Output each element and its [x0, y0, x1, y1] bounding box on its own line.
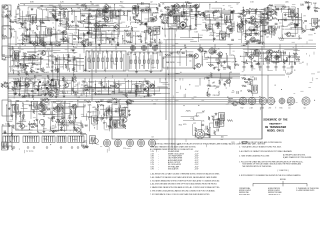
svg-text:100: 100	[221, 137, 224, 139]
svg-text:470: 470	[2, 38, 5, 40]
svg-text:TUBE AND TRANSISTOR VOLTAGE CH: TUBE AND TRANSISTOR VOLTAGE CHART (SEE N…	[150, 146, 196, 149]
svg-text:C9: C9	[36, 73, 38, 75]
svg-text:Q1: Q1	[166, 12, 168, 14]
svg-text:BAL MOD: BAL MOD	[166, 61, 175, 64]
svg-text:L3: L3	[289, 108, 291, 110]
svg-text:C8: C8	[248, 22, 250, 24]
svg-text:Q1: Q1	[48, 102, 50, 104]
svg-text:L2: L2	[250, 35, 252, 37]
svg-text:R15: R15	[33, 58, 36, 60]
svg-text:( 1 GW-21 E ): ( 1 GW-21 E )	[277, 170, 288, 172]
svg-text:Q4: Q4	[215, 60, 217, 62]
svg-text:Q2: Q2	[42, 84, 44, 86]
svg-text:Q1: Q1	[120, 92, 122, 94]
svg-text:C9: C9	[118, 110, 120, 112]
svg-text:.02: .02	[45, 17, 48, 19]
svg-text:R7: R7	[304, 16, 306, 18]
svg-text:C9: C9	[231, 61, 233, 63]
svg-text:R1: R1	[72, 104, 74, 106]
svg-text:R7: R7	[179, 8, 181, 10]
svg-text:C2: C2	[34, 107, 36, 109]
svg-text:Q4: Q4	[244, 36, 246, 38]
svg-text:C9: C9	[268, 32, 270, 34]
svg-text:C8: C8	[145, 81, 147, 83]
svg-text:L2: L2	[30, 102, 32, 104]
svg-text:.02: .02	[251, 24, 254, 26]
svg-text:Q1: Q1	[103, 24, 105, 26]
svg-text:L3: L3	[16, 66, 18, 68]
svg-text:L3: L3	[266, 55, 268, 57]
svg-text:R21: R21	[89, 37, 92, 39]
svg-text:.02: .02	[73, 52, 76, 54]
svg-text:220: 220	[29, 133, 32, 135]
svg-text:R15: R15	[29, 58, 32, 60]
svg-text:Q1: Q1	[18, 52, 20, 54]
svg-text:C2: C2	[81, 84, 83, 86]
svg-text:C9: C9	[16, 129, 18, 131]
svg-text:.047: .047	[13, 88, 17, 90]
svg-text:L3: L3	[269, 60, 271, 62]
svg-text:470: 470	[50, 95, 53, 97]
svg-text:270: 270	[39, 58, 42, 60]
svg-text:Q1: Q1	[113, 42, 115, 44]
svg-text:C8: C8	[63, 126, 65, 128]
svg-text:L2: L2	[103, 123, 105, 125]
svg-text:3. ALL PARTS OF CAPACITORS SHO: 3. ALL PARTS OF CAPACITORS SHOWN IN PICT…	[239, 150, 293, 153]
svg-text:C8: C8	[151, 136, 153, 138]
svg-text:R21: R21	[232, 142, 235, 144]
svg-text:1. INDICATES CIRCUIT: 1. INDICATES CIRCUIT BOARD AND OUTER SHI…	[239, 141, 283, 144]
svg-text:R12: R12	[19, 113, 22, 115]
svg-text:R7: R7	[85, 23, 87, 25]
svg-text:.047: .047	[231, 92, 234, 94]
svg-text:R21: R21	[46, 67, 49, 69]
svg-text:R7: R7	[318, 72, 320, 74]
svg-text:100: 100	[82, 15, 85, 17]
svg-text:.02: .02	[150, 1, 153, 3]
svg-text:120: 120	[73, 60, 76, 62]
svg-text:C2: C2	[156, 100, 158, 102]
svg-text:C31: C31	[189, 3, 192, 5]
svg-text:.005: .005	[38, 113, 42, 115]
svg-text:SCHEMATIC OF THE: SCHEMATIC OF THE	[263, 119, 288, 122]
svg-text:T1 T2 T3: T1 T2 T3	[26, 151, 33, 153]
svg-text:L3: L3	[187, 9, 189, 11]
svg-text:100: 100	[26, 100, 29, 102]
svg-text:120: 120	[21, 28, 24, 30]
svg-text:.005: .005	[92, 107, 96, 109]
svg-text:C8: C8	[32, 31, 34, 33]
svg-text:C2: C2	[118, 123, 120, 125]
svg-text:R12: R12	[37, 69, 40, 71]
svg-text:SERIES ONE: SERIES ONE	[239, 192, 249, 194]
svg-text:CB TRANSCEIVER: CB TRANSCEIVER	[265, 126, 287, 129]
svg-text:220: 220	[261, 108, 264, 110]
svg-text:C9: C9	[273, 35, 275, 37]
svg-text:C14: C14	[25, 79, 28, 81]
svg-text:100: 100	[229, 101, 232, 103]
svg-text:R15: R15	[42, 23, 45, 25]
svg-text:C9: C9	[105, 4, 107, 6]
svg-text:R7: R7	[59, 6, 61, 8]
svg-text:L3: L3	[181, 16, 183, 18]
svg-text:C2: C2	[67, 118, 69, 120]
svg-text:C9: C9	[66, 55, 68, 57]
svg-text:MODELS GW-11: MODELS GW-11	[268, 190, 280, 192]
svg-text:100: 100	[208, 75, 211, 77]
svg-text:6. NOTES REFER TO SCHEMATIC AS: 6. NOTES REFER TO SCHEMATIC AS SHOWN IN …	[239, 174, 301, 177]
svg-text:.005: .005	[148, 27, 151, 29]
svg-text:MODELS GW-21: MODELS GW-21	[239, 190, 251, 192]
svg-text:C14: C14	[39, 8, 42, 10]
svg-text:R1: R1	[157, 12, 159, 14]
svg-text:L2: L2	[203, 111, 205, 113]
svg-text:.005: .005	[150, 19, 154, 21]
svg-text:100: 100	[124, 107, 127, 109]
svg-text:C14: C14	[87, 89, 90, 91]
svg-text:L3: L3	[84, 4, 86, 6]
svg-text:R21: R21	[281, 26, 284, 28]
svg-text:C31: C31	[31, 137, 34, 139]
svg-text:R7: R7	[194, 123, 196, 125]
svg-text:220: 220	[247, 43, 250, 45]
svg-text:R12: R12	[241, 108, 244, 110]
svg-text:470: 470	[132, 84, 135, 86]
svg-text:.02: .02	[307, 7, 310, 9]
svg-text:.005: .005	[285, 1, 289, 3]
svg-text:R1: R1	[73, 82, 75, 84]
svg-text:L3: L3	[34, 78, 36, 80]
svg-text:Q4: Q4	[77, 8, 79, 10]
svg-text:C31: C31	[46, 64, 49, 66]
svg-text:.01: .01	[42, 82, 45, 84]
svg-text:R1: R1	[90, 1, 92, 3]
svg-text:Q1: Q1	[171, 53, 173, 55]
svg-text:Q4: Q4	[58, 5, 60, 7]
svg-text:Q1: Q1	[207, 15, 209, 17]
svg-text:.005: .005	[215, 87, 219, 89]
svg-text:270: 270	[123, 148, 126, 150]
svg-text:R12: R12	[51, 90, 54, 92]
svg-text:.005: .005	[203, 51, 207, 53]
svg-text:100: 100	[74, 32, 77, 34]
svg-text:Q2: Q2	[140, 41, 142, 43]
svg-text:C2: C2	[59, 31, 61, 33]
svg-text:L2: L2	[221, 80, 223, 82]
svg-text:C31: C31	[247, 84, 250, 86]
svg-text:C14: C14	[241, 12, 244, 14]
svg-text:220: 220	[153, 104, 156, 106]
svg-text:270: 270	[91, 4, 94, 6]
svg-text:R21: R21	[161, 19, 164, 21]
svg-text:C2: C2	[228, 30, 230, 32]
svg-text:.02: .02	[236, 4, 238, 6]
svg-text:R15: R15	[136, 36, 139, 38]
svg-text:470: 470	[47, 100, 50, 102]
svg-text:Q4: Q4	[15, 84, 17, 86]
svg-text:R7: R7	[244, 25, 246, 27]
svg-text:R21: R21	[113, 120, 116, 122]
svg-text:C9: C9	[34, 81, 36, 83]
svg-text:MODEL GW-21: MODEL GW-21	[267, 131, 285, 133]
svg-text:R1: R1	[227, 97, 229, 99]
svg-text:270: 270	[194, 28, 197, 30]
svg-text:R21: R21	[65, 60, 68, 62]
svg-text:R15: R15	[24, 58, 27, 60]
svg-text:.01: .01	[84, 100, 87, 102]
svg-text:L3: L3	[288, 8, 290, 10]
svg-text:Q1: Q1	[232, 30, 234, 32]
svg-text:270: 270	[67, 38, 70, 40]
svg-text:L3: L3	[183, 9, 185, 11]
svg-text:.047: .047	[277, 62, 281, 64]
svg-text:C9: C9	[2, 12, 4, 14]
svg-text:.005: .005	[311, 30, 315, 32]
svg-text:470: 470	[253, 39, 256, 41]
svg-text:C2: C2	[50, 32, 52, 34]
svg-text:100: 100	[114, 102, 117, 104]
svg-text:R1: R1	[50, 12, 52, 14]
svg-text:Q4: Q4	[187, 54, 189, 56]
svg-text:R1: R1	[23, 114, 25, 116]
svg-text:C8: C8	[73, 75, 75, 77]
svg-text:L2: L2	[40, 92, 42, 94]
svg-text:C14: C14	[28, 42, 31, 44]
svg-text:120: 120	[43, 139, 46, 141]
svg-text:C2: C2	[290, 29, 292, 31]
svg-text:100: 100	[50, 85, 53, 87]
svg-text:220: 220	[121, 7, 124, 9]
svg-text:Q1: Q1	[32, 64, 34, 66]
svg-text:C9: C9	[190, 118, 192, 120]
svg-text:470: 470	[7, 17, 10, 19]
svg-text:.01: .01	[214, 19, 217, 21]
svg-text:HEATHKIT®: HEATHKIT®	[269, 122, 282, 125]
svg-text:L3: L3	[232, 24, 234, 26]
svg-text:C14: C14	[83, 142, 86, 144]
svg-text:C8: C8	[213, 86, 215, 88]
svg-text:Q2: Q2	[205, 129, 207, 131]
svg-text:C9: C9	[98, 94, 100, 96]
svg-text:.005: .005	[259, 58, 263, 60]
svg-text:270: 270	[269, 108, 272, 110]
svg-text:C9: C9	[85, 126, 87, 128]
svg-text:R12: R12	[238, 13, 241, 15]
svg-text:Q2: Q2	[22, 83, 24, 85]
svg-text:.047: .047	[83, 141, 86, 143]
svg-text:.02: .02	[68, 83, 71, 85]
svg-text:R12: R12	[215, 123, 218, 125]
svg-text:120: 120	[58, 26, 61, 28]
svg-text:.047: .047	[134, 17, 138, 19]
svg-text:C8: C8	[81, 21, 83, 23]
svg-text:R15: R15	[251, 42, 254, 44]
svg-text:C9: C9	[87, 112, 89, 114]
svg-text:120: 120	[55, 130, 58, 132]
svg-text:.005: .005	[273, 11, 277, 13]
svg-text:220: 220	[252, 54, 255, 56]
svg-text:C14: C14	[194, 5, 197, 7]
svg-text:R15: R15	[254, 34, 257, 36]
svg-text:.02: .02	[111, 100, 114, 102]
svg-text:Q4: Q4	[54, 127, 56, 129]
svg-text:R7: R7	[219, 60, 221, 62]
svg-text:R12: R12	[120, 1, 123, 3]
svg-text:.005: .005	[214, 67, 218, 69]
svg-text:Q1: Q1	[189, 61, 191, 63]
svg-text:C8: C8	[227, 21, 229, 23]
svg-text:L3: L3	[24, 45, 26, 47]
svg-text:Q2: Q2	[4, 29, 6, 31]
svg-text:R1: R1	[221, 66, 223, 68]
svg-text:R15: R15	[280, 108, 283, 110]
svg-text:Q4: Q4	[294, 27, 296, 29]
svg-text:C2: C2	[195, 25, 197, 27]
svg-text:R12: R12	[29, 80, 32, 82]
svg-text:.01: .01	[80, 95, 83, 97]
svg-text:100: 100	[266, 62, 269, 64]
svg-text:C31: C31	[283, 18, 286, 20]
svg-text:MODEL: MODEL	[280, 179, 286, 181]
svg-text:L3: L3	[53, 43, 55, 45]
svg-text:.047: .047	[51, 101, 55, 103]
svg-text:C2: C2	[244, 75, 246, 77]
svg-text:270: 270	[213, 95, 216, 97]
svg-text:470: 470	[183, 124, 186, 126]
svg-text:Q2: Q2	[51, 67, 53, 69]
svg-text:.02: .02	[223, 61, 226, 63]
svg-text:R12: R12	[211, 116, 214, 118]
svg-text:C8: C8	[207, 57, 209, 59]
svg-text:100: 100	[253, 61, 256, 63]
svg-text:R21: R21	[33, 124, 36, 126]
svg-text:R15: R15	[17, 56, 20, 58]
svg-text:.01: .01	[302, 62, 304, 64]
svg-text:.047: .047	[56, 101, 60, 103]
svg-text:L3: L3	[240, 91, 242, 93]
svg-text:Q2: Q2	[304, 108, 306, 110]
svg-text:120: 120	[236, 102, 239, 104]
svg-text:R12: R12	[179, 124, 182, 126]
svg-text:C2: C2	[284, 53, 286, 55]
svg-text:C14: C14	[95, 37, 98, 39]
svg-text:.02: .02	[266, 37, 269, 39]
svg-text:C8: C8	[115, 19, 117, 21]
svg-text:C9: C9	[97, 40, 99, 42]
svg-text:R15: R15	[150, 42, 153, 44]
svg-text:120: 120	[75, 85, 78, 87]
svg-text:L2: L2	[90, 139, 92, 141]
svg-text:470: 470	[144, 10, 147, 12]
svg-text:+13.8V: +13.8V	[286, 73, 293, 75]
svg-text:L2: L2	[164, 16, 166, 18]
svg-text:Q1: Q1	[52, 9, 54, 11]
svg-text:C14: C14	[177, 21, 180, 23]
svg-text:270: 270	[231, 55, 234, 57]
svg-text:L2: L2	[213, 82, 215, 84]
svg-text:470: 470	[47, 48, 50, 50]
svg-text:2. ~ INDICATES CIRCUIT B: 2. ~ INDICATES CIRCUIT BOARD ETCHED FOIL…	[239, 146, 282, 149]
svg-text:R12: R12	[76, 36, 79, 38]
svg-text:.02: .02	[102, 19, 105, 21]
svg-text:.01: .01	[214, 24, 217, 26]
svg-text:Q4: Q4	[87, 17, 89, 19]
svg-text:4. TUBE SYMBOLS ARE AS FOLLOWS: 4. TUBE SYMBOLS ARE AS FOLLOWS:	[239, 154, 270, 157]
